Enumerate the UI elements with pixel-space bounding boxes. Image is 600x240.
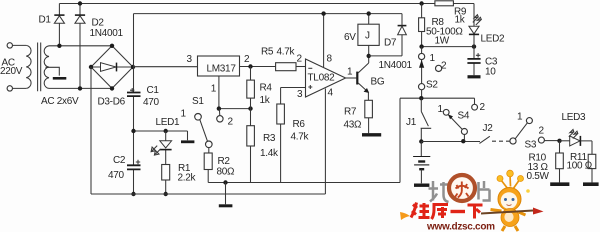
wire LM317 output — [240, 66, 276, 68]
wire pin3 input — [281, 88, 306, 105]
capacitor C3 — [473, 47, 475, 76]
regulator U1 LM317 — [198, 56, 240, 76]
svg-text:220V: 220V — [0, 66, 23, 77]
svg-text:4: 4 — [328, 88, 334, 99]
wire J1 to J2 — [421, 141, 480, 143]
ground R7 — [362, 133, 381, 136]
LED LED1 — [165, 131, 167, 165]
svg-text:J2: J2 — [483, 123, 494, 134]
svg-text:3: 3 — [297, 89, 303, 100]
wire op-amp output — [346, 77, 357, 79]
LED LED2 — [473, 4, 475, 47]
wire main bottom rail — [91, 193, 325, 195]
svg-text:D3-D6: D3-D6 — [98, 97, 126, 108]
wire sub ground rail — [208, 182, 400, 184]
svg-text:470: 470 — [108, 170, 125, 181]
svg-text:S3: S3 — [525, 140, 537, 151]
svg-text:S1: S1 — [192, 96, 204, 107]
svg-text:D7: D7 — [384, 38, 397, 49]
svg-text:BG: BG — [371, 77, 385, 88]
svg-text:2: 2 — [228, 117, 234, 128]
svg-text:J: J — [365, 31, 370, 42]
ground battery — [414, 183, 429, 186]
svg-text:LED3: LED3 — [562, 112, 587, 123]
switch S2 — [421, 47, 423, 54]
wire secondary top lead — [49, 45, 112, 47]
svg-text:2: 2 — [244, 54, 250, 65]
svg-text:R3: R3 — [263, 133, 276, 144]
op-amp U2 TL082 — [306, 59, 346, 97]
svg-text:8: 8 — [327, 54, 333, 65]
svg-text:2: 2 — [297, 54, 303, 65]
svg-text:R7: R7 — [344, 107, 357, 118]
resistor R9 — [435, 1, 454, 6]
svg-text:470: 470 — [143, 97, 160, 108]
svg-text:R4: R4 — [260, 83, 273, 94]
svg-text:LM317: LM317 — [207, 64, 237, 75]
svg-text:1: 1 — [517, 112, 523, 123]
svg-text:6V: 6V — [344, 32, 356, 43]
svg-text:TL082: TL082 — [308, 73, 336, 84]
svg-text:D1: D1 — [39, 15, 52, 26]
svg-text:0.5W: 0.5W — [527, 171, 550, 182]
wire top rail — [59, 3, 474, 5]
wire adj node — [219, 108, 251, 110]
wire LM317 input — [133, 66, 198, 68]
svg-text:R2: R2 — [218, 156, 231, 167]
resistor R1 — [162, 165, 170, 181]
node D2 anode — [78, 86, 82, 90]
svg-text:LED1: LED1 — [156, 117, 181, 128]
svg-text:C1: C1 — [147, 85, 160, 96]
orange swoosh — [400, 212, 410, 220]
ground LED1 node — [181, 140, 194, 143]
svg-text:1k: 1k — [455, 15, 466, 26]
wire LED1 node — [134, 131, 188, 140]
transformer core — [38, 43, 41, 92]
svg-text:J1: J1 — [406, 117, 417, 128]
svg-text:R5: R5 — [261, 47, 274, 58]
svg-text:www.dzsc.com: www.dzsc.com — [426, 222, 495, 233]
resistor R8 — [419, 1, 423, 5]
node D1 anode — [57, 44, 61, 48]
node J1 bottom — [419, 139, 423, 143]
svg-text:S2: S2 — [426, 80, 438, 91]
svg-text:3: 3 — [187, 54, 193, 65]
transformer T primary terminals — [7, 43, 12, 48]
bridge rectifier D3-D6 — [91, 46, 133, 89]
svg-text:1: 1 — [347, 67, 353, 78]
svg-text:10: 10 — [485, 67, 496, 78]
svg-text:1: 1 — [430, 53, 436, 64]
svg-text:43Ω: 43Ω — [344, 120, 363, 131]
resistor R3 — [250, 109, 252, 126]
mascot — [481, 170, 544, 231]
svg-text:80Ω: 80Ω — [217, 167, 236, 178]
wire sub rail up to J1 column — [400, 98, 475, 182]
svg-text:4.7k: 4.7k — [277, 47, 296, 58]
wire bridge right down through C1 — [133, 67, 135, 194]
capacitor C1 — [127, 93, 141, 97]
wire bridge right up to second rail — [133, 14, 135, 67]
svg-text:1N4001: 1N4001 — [379, 60, 413, 71]
wire relay bottom node — [369, 35, 402, 56]
wire primary leads — [13, 45, 27, 88]
wire link dashes — [492, 140, 510, 142]
ground center tap — [53, 77, 67, 80]
wire rails junction — [324, 183, 326, 195]
svg-text:1.4k: 1.4k — [260, 148, 279, 159]
wire second rail — [134, 13, 403, 15]
svg-text:1: 1 — [438, 104, 444, 115]
svg-text:1: 1 — [181, 109, 187, 120]
svg-text:AC 2x6V: AC 2x6V — [41, 96, 79, 107]
resistor R2 — [208, 148, 210, 153]
svg-text:D2: D2 — [92, 18, 105, 29]
diode D7 — [398, 26, 407, 35]
red brand text wei ku yi xia — [411, 203, 483, 220]
svg-text:1: 1 — [211, 84, 217, 95]
resistor R10 — [559, 141, 561, 155]
svg-text:2.2k: 2.2k — [178, 173, 197, 184]
svg-text:2: 2 — [441, 61, 447, 72]
resistor R7 — [367, 92, 369, 100]
svg-text:1W: 1W — [435, 36, 450, 47]
node J1 top — [419, 96, 423, 100]
svg-text:2: 2 — [539, 126, 545, 137]
resistor R11 — [588, 154, 596, 168]
wire center tap — [46, 67, 60, 75]
battery B1 — [420, 142, 422, 157]
resistor R6 — [277, 104, 285, 124]
switch S3 — [510, 138, 516, 144]
ground R11 — [583, 182, 599, 186]
magnifier — [449, 175, 475, 201]
watermark logo — [400, 170, 544, 232]
svg-text:1N4001: 1N4001 — [90, 28, 124, 39]
svg-text:LED2: LED2 — [481, 34, 506, 45]
transistor Q1 BG — [356, 72, 358, 85]
wire LM317 adj — [218, 76, 220, 109]
char zhao — [429, 181, 449, 202]
wire bridge left to bottom rail — [90, 67, 92, 194]
svg-text:100 Ω: 100 Ω — [567, 161, 593, 172]
svg-text:1k: 1k — [260, 95, 271, 106]
char pian — [479, 181, 490, 201]
wire S3 to LED3 node — [544, 140, 559, 142]
transformer primary winding — [26, 45, 31, 88]
svg-text:S4: S4 — [458, 111, 470, 122]
svg-text:4.7k: 4.7k — [291, 132, 310, 143]
switch S4 — [461, 139, 465, 143]
wire pin4 down — [324, 89, 326, 183]
ground R10 — [550, 182, 569, 186]
diode D2 — [79, 4, 81, 89]
wire R8 to LED2 node — [422, 46, 474, 48]
wire pin8 supply — [323, 14, 325, 67]
transformer secondary winding — [44, 46, 49, 89]
relay J coil — [368, 14, 370, 25]
resistor R4 — [250, 67, 252, 81]
svg-text:C2: C2 — [113, 155, 126, 166]
capacitor C2 — [127, 165, 141, 169]
wire secondary bottom lead — [49, 87, 112, 89]
ground C3 — [468, 75, 481, 78]
node D2 top — [78, 1, 82, 5]
svg-text:R6: R6 — [293, 119, 306, 130]
LED LED3 — [560, 140, 570, 142]
diode D1 — [58, 4, 60, 46]
svg-text:2: 2 — [480, 102, 486, 113]
ground sub rail tap — [225, 183, 227, 205]
